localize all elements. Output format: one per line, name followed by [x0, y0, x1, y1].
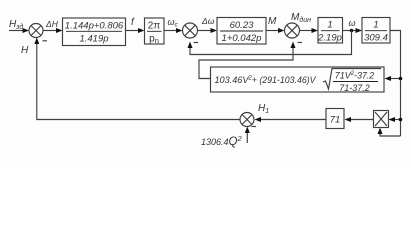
minus sign at summing junction U3	[298, 42, 303, 44]
summing junction U2	[183, 23, 198, 38]
wire V input to W6	[390, 78, 401, 80]
radical sign of W6	[323, 69, 381, 90]
svg-text:71: 71	[330, 115, 341, 126]
wire H feedback from U4 to U1	[37, 43, 240, 120]
svg-text:309.4: 309.4	[364, 33, 388, 44]
wire input to summing junction 1	[9, 30, 24, 32]
block 71	[326, 109, 344, 129]
svg-text:ωc: ωc	[168, 17, 179, 29]
junction dot V to W6	[399, 77, 403, 81]
block W5 1/309.4	[362, 18, 390, 44]
svg-text:1.419p: 1.419p	[79, 34, 108, 45]
svg-text:Hзд: Hзд	[9, 19, 23, 31]
svg-text:1.144p+0.806: 1.144p+0.806	[65, 21, 124, 32]
svg-text:1+0.042p: 1+0.042p	[222, 33, 262, 44]
svg-text:71-37.2: 71-37.2	[339, 83, 370, 93]
svg-text:1: 1	[327, 20, 332, 31]
svg-text:H: H	[21, 45, 29, 56]
svg-text:Δω: Δω	[201, 16, 215, 26]
block W6 head characteristic	[211, 67, 385, 92]
svg-text:60.23: 60.23	[230, 20, 254, 31]
block W4 1/2.19p	[318, 18, 343, 44]
minus sign at summing junction U1	[43, 40, 48, 42]
wire V squared loop to multiplier bottom	[380, 132, 401, 136]
wire junction U3 to block W4	[300, 30, 313, 32]
block W3 60.23/(1+0.042p)	[217, 18, 266, 45]
svg-text:M: M	[268, 16, 277, 27]
wire junction U2 to block W3	[198, 30, 212, 32]
svg-text:71V2-37.2: 71V2-37.2	[335, 71, 375, 81]
svg-text:ω: ω	[349, 18, 356, 28]
wire W2 to junction U2	[164, 30, 177, 32]
svg-text:2π: 2π	[148, 21, 161, 32]
multiplier block X	[374, 111, 389, 128]
minus sign at summing junction U2	[194, 42, 199, 44]
wire W3 to junction U3	[266, 30, 279, 32]
summing junction U4	[240, 113, 254, 127]
svg-text:pn: pn	[149, 34, 159, 46]
wire 71 to junction U4	[260, 119, 326, 121]
wire 1306.4Q2 input to U4	[246, 131, 248, 143]
wire W1 to W2	[126, 30, 140, 32]
svg-text:ΔH: ΔH	[45, 19, 59, 29]
minus sign at summing junction U4	[252, 126, 257, 128]
wire multiplier to block 71	[350, 119, 374, 121]
wire W5 output to right bus	[390, 31, 401, 137]
wire W6 output to junction U3	[199, 46, 293, 79]
junction dot V to multiplier	[399, 118, 403, 122]
wire junction U1 to block W1	[43, 30, 57, 32]
wire omega feedback to junction U2	[190, 31, 352, 55]
svg-text:f: f	[131, 17, 135, 28]
block W2 2pi/pn	[145, 18, 165, 44]
svg-text:Mдин: Mдин	[291, 12, 311, 24]
summing junction U1	[29, 24, 43, 38]
svg-text:H1: H1	[258, 103, 269, 115]
svg-text:1: 1	[373, 20, 378, 31]
svg-text:1306.4Q2: 1306.4Q2	[201, 134, 242, 148]
svg-text:2.19p: 2.19p	[317, 33, 342, 44]
block W1 regulator 1.144p+0.806/1.419p	[63, 18, 126, 46]
junction dot omega node	[350, 29, 354, 33]
wire W4 to W5	[343, 30, 357, 32]
summing junction U3	[285, 23, 300, 38]
svg-text:103.46V2+ (291-103.46)V: 103.46V2+ (291-103.46)V	[215, 75, 317, 85]
wire V to multiplier right input	[394, 119, 401, 121]
